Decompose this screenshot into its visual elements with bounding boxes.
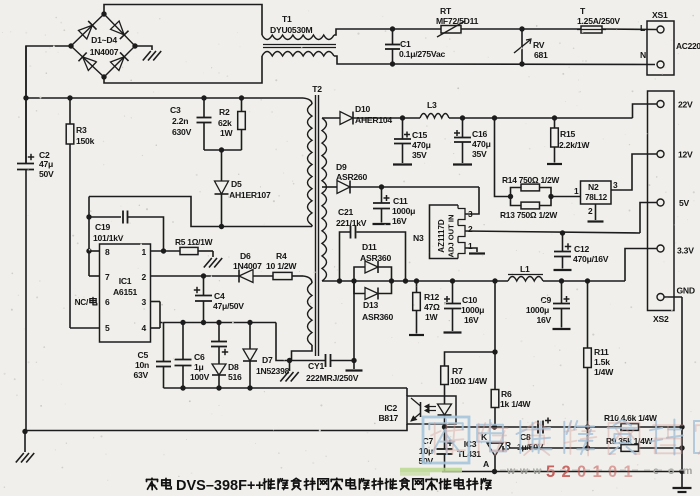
- svg-text:D11: D11: [362, 242, 377, 252]
- svg-text:m: m: [683, 465, 692, 477]
- svg-text:50V: 50V: [418, 456, 433, 466]
- svg-text:10n: 10n: [135, 360, 149, 370]
- svg-text:AH1ER107: AH1ER107: [229, 190, 271, 200]
- svg-text:63V: 63V: [133, 370, 148, 380]
- svg-text:w: w: [532, 465, 542, 477]
- svg-text:C19: C19: [95, 222, 110, 232]
- svg-text:1μ: 1μ: [194, 362, 204, 372]
- svg-text:DYU0530M: DYU0530M: [270, 25, 313, 35]
- svg-text:o: o: [668, 465, 674, 477]
- svg-text:N3: N3: [413, 233, 424, 243]
- svg-text:16V: 16V: [392, 216, 407, 226]
- svg-text:C11: C11: [393, 196, 408, 206]
- svg-text:L3: L3: [427, 100, 437, 110]
- svg-text:AHER104: AHER104: [355, 115, 392, 125]
- svg-text:N2: N2: [588, 182, 599, 192]
- svg-text:0: 0: [577, 463, 586, 481]
- svg-text:470μ: 470μ: [412, 140, 431, 150]
- svg-text:0: 0: [608, 463, 617, 481]
- svg-text:C16: C16: [472, 129, 487, 139]
- svg-text:47Ω: 47Ω: [424, 302, 440, 312]
- svg-text:GND: GND: [677, 286, 695, 296]
- svg-text:R9 35k 1/4W: R9 35k 1/4W: [606, 436, 652, 446]
- svg-text:35V: 35V: [472, 149, 487, 159]
- svg-text:1N4007: 1N4007: [90, 47, 119, 57]
- svg-text:R12: R12: [424, 292, 439, 302]
- svg-text:R15: R15: [560, 129, 575, 139]
- svg-text:10μ: 10μ: [419, 446, 433, 456]
- svg-text:N: N: [640, 50, 646, 60]
- svg-text:3.3V: 3.3V: [677, 246, 694, 256]
- svg-text:1k 1/4W: 1k 1/4W: [500, 399, 531, 409]
- svg-text:5: 5: [546, 463, 555, 481]
- svg-text:ADJ OUT IN: ADJ OUT IN: [447, 214, 456, 257]
- svg-text:D7: D7: [262, 355, 273, 365]
- svg-text:47μ/50V: 47μ/50V: [213, 301, 244, 311]
- svg-text:AZ1117D: AZ1117D: [437, 219, 446, 253]
- svg-text:1W: 1W: [425, 312, 439, 322]
- svg-text:D1~D4: D1~D4: [91, 35, 117, 45]
- svg-text:D13: D13: [363, 300, 378, 310]
- svg-text:221/1kV: 221/1kV: [336, 218, 367, 228]
- svg-text:2: 2: [562, 463, 571, 481]
- svg-text:1N4007: 1N4007: [233, 261, 262, 271]
- svg-text:R10 4.6k 1/4W: R10 4.6k 1/4W: [604, 413, 657, 423]
- svg-text:ASR260: ASR260: [336, 172, 367, 182]
- svg-text:ASR360: ASR360: [360, 253, 391, 263]
- svg-text:R13 750Ω 1/2W: R13 750Ω 1/2W: [500, 210, 557, 220]
- svg-text:1000μ: 1000μ: [461, 305, 484, 315]
- svg-text:2: 2: [142, 272, 147, 282]
- svg-text:3: 3: [613, 180, 618, 190]
- svg-text:IC2: IC2: [384, 403, 397, 413]
- svg-text:C5: C5: [138, 350, 149, 360]
- svg-text:D8: D8: [228, 362, 239, 372]
- svg-text:L: L: [640, 23, 645, 33]
- svg-text:ASR360: ASR360: [362, 312, 393, 322]
- svg-text:1.5k: 1.5k: [594, 357, 610, 367]
- svg-text:16V: 16V: [536, 315, 551, 325]
- svg-text:D9: D9: [336, 162, 347, 172]
- svg-text:150k: 150k: [76, 136, 95, 146]
- svg-text:R5 1Ω/1W: R5 1Ω/1W: [175, 237, 213, 247]
- svg-text:C6: C6: [194, 352, 205, 362]
- svg-text:B817: B817: [378, 413, 398, 423]
- svg-text:XS1: XS1: [652, 10, 668, 20]
- svg-text:1: 1: [468, 241, 473, 251]
- svg-text:L1: L1: [520, 264, 530, 274]
- svg-text:w: w: [519, 465, 529, 477]
- svg-text:22V: 22V: [678, 100, 693, 110]
- svg-text:2: 2: [468, 224, 473, 234]
- svg-text:62k: 62k: [218, 118, 232, 128]
- svg-text:C12: C12: [574, 244, 589, 254]
- svg-text:1/4W: 1/4W: [594, 367, 614, 377]
- svg-text:D5: D5: [231, 179, 242, 189]
- svg-text:78L12: 78L12: [585, 193, 608, 202]
- svg-text:XS2: XS2: [653, 314, 669, 324]
- svg-text:47μ: 47μ: [39, 159, 53, 169]
- svg-text:CY1: CY1: [308, 361, 324, 371]
- svg-text:1N52398: 1N52398: [256, 366, 290, 376]
- svg-text:100V: 100V: [190, 372, 210, 382]
- svg-text:50V: 50V: [39, 169, 54, 179]
- svg-text:R11: R11: [594, 347, 609, 357]
- svg-text:101/1kV: 101/1kV: [93, 233, 124, 243]
- svg-text:0.1μ/275Vac: 0.1μ/275Vac: [399, 49, 445, 59]
- svg-text:A: A: [483, 459, 489, 469]
- svg-text:516: 516: [228, 372, 242, 382]
- svg-text:NC/: NC/: [75, 298, 89, 307]
- svg-text:IC1: IC1: [119, 276, 132, 286]
- svg-text:C15: C15: [412, 130, 427, 140]
- svg-text:2.2k/1W: 2.2k/1W: [559, 140, 590, 150]
- svg-text:10 1/2W: 10 1/2W: [266, 261, 297, 271]
- svg-text:C1: C1: [400, 39, 411, 49]
- svg-text:D10: D10: [355, 104, 370, 114]
- svg-text:1000μ: 1000μ: [392, 206, 415, 216]
- svg-text:12V: 12V: [678, 150, 693, 160]
- svg-text:A6151: A6151: [113, 287, 138, 297]
- svg-text:R6: R6: [501, 389, 512, 399]
- svg-text:RV: RV: [533, 40, 545, 50]
- svg-text:3: 3: [468, 209, 473, 219]
- svg-text:10Ω 1/4W: 10Ω 1/4W: [450, 376, 488, 386]
- svg-text:630V: 630V: [172, 127, 192, 137]
- svg-text:DVS–398F++: DVS–398F++: [176, 478, 264, 494]
- svg-text:1W: 1W: [220, 128, 234, 138]
- svg-text:MF72/5D11: MF72/5D11: [436, 16, 479, 26]
- svg-text:7: 7: [105, 272, 110, 282]
- svg-text:C4: C4: [214, 291, 225, 301]
- svg-text:R4: R4: [276, 251, 287, 261]
- svg-text:T1: T1: [282, 14, 292, 24]
- svg-text:T2: T2: [312, 84, 322, 94]
- svg-text:R14 750Ω 1/2W: R14 750Ω 1/2W: [502, 175, 559, 185]
- svg-text:3: 3: [142, 297, 147, 307]
- svg-text:5: 5: [105, 323, 110, 333]
- svg-text:C9: C9: [541, 295, 552, 305]
- svg-text:R2: R2: [219, 107, 230, 117]
- svg-text:1: 1: [574, 186, 579, 196]
- svg-text:C21: C21: [338, 207, 353, 217]
- svg-text:1000μ: 1000μ: [526, 305, 549, 315]
- svg-text:R7: R7: [452, 366, 463, 376]
- svg-text:470μ: 470μ: [472, 139, 491, 149]
- svg-text:1: 1: [142, 247, 147, 257]
- svg-text:c: c: [653, 465, 659, 477]
- svg-text:681: 681: [534, 50, 548, 60]
- svg-text:C10: C10: [462, 295, 477, 305]
- svg-text:5V: 5V: [679, 198, 690, 208]
- svg-text:D6: D6: [240, 251, 251, 261]
- svg-text:2.2n: 2.2n: [172, 116, 188, 126]
- svg-text:1: 1: [593, 463, 602, 481]
- svg-text:8: 8: [105, 247, 110, 257]
- svg-text:4: 4: [142, 323, 147, 333]
- svg-text:16V: 16V: [464, 315, 479, 325]
- svg-text:1: 1: [624, 463, 633, 481]
- svg-text:AC220V: AC220V: [676, 41, 700, 51]
- svg-text:470μ/16V: 470μ/16V: [573, 254, 609, 264]
- svg-text:R3: R3: [76, 125, 87, 135]
- svg-text:C3: C3: [170, 105, 181, 115]
- svg-text:1.25A/250V: 1.25A/250V: [577, 16, 620, 26]
- svg-text:6: 6: [105, 297, 110, 307]
- svg-text:35V: 35V: [412, 150, 427, 160]
- svg-text:2: 2: [588, 206, 593, 216]
- svg-text:w: w: [506, 465, 516, 477]
- svg-text:RT: RT: [440, 6, 452, 16]
